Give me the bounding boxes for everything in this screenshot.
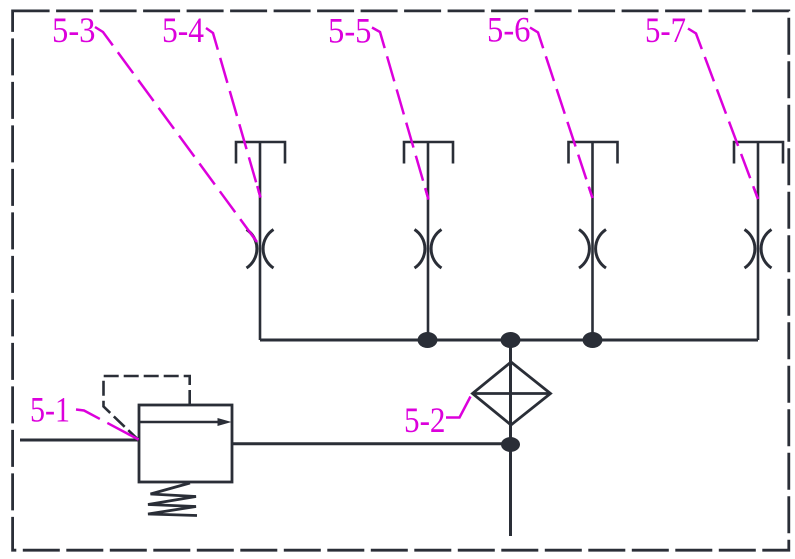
svg-text:5-5: 5-5	[328, 11, 372, 51]
svg-text:5-7: 5-7	[645, 10, 686, 50]
svg-text:5-2: 5-2	[404, 400, 446, 440]
svg-text:5-4: 5-4	[162, 10, 204, 50]
svg-text:5-3: 5-3	[52, 10, 96, 50]
svg-text:5-6: 5-6	[487, 10, 531, 50]
svg-text:5-1: 5-1	[30, 390, 70, 430]
